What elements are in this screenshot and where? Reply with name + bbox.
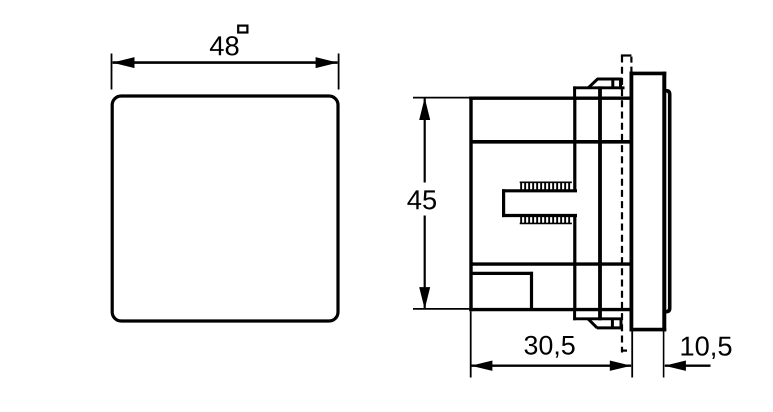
top mounting clip: base line xyxy=(573,86,624,89)
front view: 48x48 bezel square xyxy=(112,96,338,321)
side view: body left edge xyxy=(469,97,472,312)
dimension 48: dimension line xyxy=(113,61,338,64)
dimension 30,5: left extension line xyxy=(470,312,472,378)
panel: dashed cut-line left face xyxy=(621,56,623,353)
connector plug: upper contact strip top line xyxy=(520,181,572,183)
side view: lower-left box right edge xyxy=(530,272,533,311)
side view: upper inner horizontal line xyxy=(471,140,632,144)
top mounting clip: lever divider xyxy=(611,79,614,88)
dimension 48: left arrowhead xyxy=(112,57,134,68)
dimension 48: left extension line xyxy=(111,54,113,90)
front bezel: outer step flange xyxy=(664,91,669,312)
top mounting clip: lever right wall xyxy=(619,78,622,90)
dimension 48: right extension line xyxy=(338,54,340,90)
side view: body top edge xyxy=(469,96,632,99)
dimension 30,5: right extension line xyxy=(631,332,633,378)
bottom mounting clip: left leg xyxy=(573,310,576,321)
bottom mounting clip: lever right wall xyxy=(620,319,623,330)
connector plug: upper contact strip teeth xyxy=(520,183,572,190)
top mounting clip: left leg xyxy=(573,86,576,98)
dimension 30,5: value label xyxy=(525,336,575,358)
dimension 10,5: value label xyxy=(682,336,732,359)
side view: body bottom edge xyxy=(469,308,632,311)
dimension 48: square symbol xyxy=(238,26,247,33)
top mounting clip: lever top edge xyxy=(597,78,622,81)
dimension 45: dimension line lower segment xyxy=(424,216,426,309)
dimension 45: top extension line xyxy=(413,97,470,99)
bottom mounting clip: lever divider xyxy=(611,319,614,328)
front bezel: right edge xyxy=(662,72,666,332)
dimension 30,5: dimension line xyxy=(471,365,631,367)
side view: inner vertical line A upper part xyxy=(573,97,576,191)
bottom mounting clip: lever bottom edge xyxy=(597,326,622,329)
dimension 45: bottom extension line xyxy=(413,308,470,310)
side view: inner vertical line B xyxy=(598,86,602,320)
dimension 45: value label xyxy=(407,190,436,209)
dimension 45: down arrowhead xyxy=(419,287,430,309)
connector plug: top edge xyxy=(502,189,577,192)
dimension 45: dimension line upper segment xyxy=(424,98,426,183)
connector plug: lower contact strip teeth xyxy=(520,217,572,223)
dimension 48: right arrowhead xyxy=(316,57,338,68)
dimension 10,5: extension line xyxy=(663,332,665,378)
connector plug: bottom edge xyxy=(502,214,577,217)
front bezel: top edge xyxy=(630,72,667,76)
dimension 48: value label xyxy=(210,36,239,55)
bottom mounting clip: base line xyxy=(573,317,622,320)
panel: dashed right face above bezel xyxy=(630,57,632,72)
dimension 45: up arrowhead xyxy=(419,98,430,120)
side view: lower inner horizontal line xyxy=(471,262,632,265)
connector plug: left edge xyxy=(502,189,505,217)
dimension 30,5: left arrowhead xyxy=(471,361,493,371)
panel: dashed top cap xyxy=(621,54,632,56)
front bezel: bottom edge xyxy=(630,328,667,332)
side view: inner vertical line A lower part xyxy=(573,216,576,311)
bottom mounting clip: lever slope xyxy=(588,319,597,328)
top mounting clip: lever slope xyxy=(588,79,597,88)
side view: lower-left box top edge xyxy=(471,272,533,275)
connector plug: lower contact strip bottom line xyxy=(520,222,572,224)
front bezel: left edge xyxy=(630,72,634,332)
dimension 10,5: dimension line with tail xyxy=(665,365,711,367)
panel: dashed bottom foot xyxy=(621,350,627,352)
dimension 10,5: left-pointing arrowhead xyxy=(664,361,686,371)
dimension 30,5: right arrowhead xyxy=(610,361,632,371)
